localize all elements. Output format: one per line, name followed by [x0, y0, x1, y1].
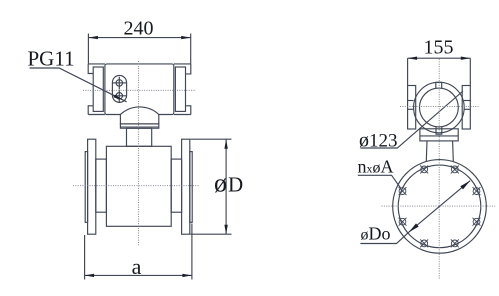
svg-text:155: 155	[424, 37, 454, 59]
svg-text:240: 240	[124, 18, 154, 40]
leader n x diameter A	[358, 175, 401, 188]
right hub	[171, 159, 181, 212]
dimension a extension right	[191, 224, 193, 280]
sensor body	[106, 146, 171, 226]
dimension Do arrow lower-left	[409, 223, 419, 232]
bolt hole 2	[473, 187, 481, 195]
dimension D extension top	[191, 138, 232, 140]
dimension Do diagonal line	[409, 181, 470, 232]
dimension 240 arrow left	[88, 36, 98, 39]
bolt hole 8	[420, 166, 428, 174]
right flange raised face	[190, 152, 192, 223]
centerline vertical side view	[438, 59, 440, 279]
svg-text:a: a	[132, 254, 142, 279]
left flange disc	[88, 139, 96, 234]
collar under dome	[120, 124, 158, 128]
flange inner circle	[398, 165, 481, 248]
converter housing body	[105, 64, 174, 115]
centerline horizontal flange circle	[382, 205, 496, 207]
bolt hole 7	[399, 187, 407, 195]
cable gland PG11 lower circle	[116, 93, 122, 99]
dimension 240 extension line right	[190, 34, 192, 64]
cable gland PG11 upper circle	[116, 80, 122, 86]
dimension D arrow top	[224, 139, 227, 149]
svg-text:PG11: PG11	[28, 47, 75, 71]
leader diameter Do	[360, 232, 409, 243]
dimension a arrow right	[182, 274, 192, 277]
svg-text:D: D	[228, 173, 243, 197]
side neck	[425, 141, 428, 161]
dimension 155 arrow right	[461, 57, 471, 60]
flange outer circle	[393, 160, 487, 254]
dimension a extension left	[84, 235, 86, 280]
leader diameter 123	[360, 91, 463, 148]
dimension 240 arrow right	[181, 36, 191, 39]
bottom boss	[436, 127, 442, 134]
bolt hole 1	[451, 166, 459, 174]
left hub	[96, 159, 107, 212]
right flange disc	[182, 139, 190, 234]
svg-text:nxøA: nxøA	[358, 157, 394, 177]
dimension 155 extension left	[407, 58, 409, 85]
centerline horizontal sensor body	[73, 185, 200, 187]
PG11 leader line	[30, 68, 127, 102]
right boss tick lines	[464, 100, 470, 102]
dimension D line	[225, 139, 227, 234]
left flange raised face	[85, 152, 87, 223]
bolt hole 3	[473, 218, 481, 226]
housing bottom edge over covers	[88, 114, 105, 116]
dimension D extension bottom	[191, 233, 232, 235]
dimension a arrow left	[85, 274, 95, 277]
clamp finger top-right	[186, 64, 191, 74]
clamp finger bottom-left	[88, 106, 93, 115]
dimension 240 extension line left	[87, 34, 89, 64]
centerline horizontal housing	[83, 89, 196, 91]
dimension a line	[85, 274, 192, 276]
cable gland boss stadium	[112, 75, 126, 102]
svg-text:øDo: øDo	[361, 224, 391, 244]
side bracket plate left	[408, 86, 416, 130]
housing right end cover	[175, 67, 185, 111]
centerline vertical front view	[138, 61, 140, 246]
left boss tick lines	[408, 100, 414, 102]
top boss	[436, 82, 442, 88]
support box	[420, 129, 458, 141]
converter housing outer circle	[414, 82, 465, 133]
clamp finger bottom-right	[186, 106, 191, 115]
dimension 155 line	[408, 57, 471, 59]
dimension 155 arrow left	[408, 57, 418, 60]
housing top edge over covers	[88, 63, 105, 65]
dimension Do arrow upper-right	[460, 181, 470, 190]
side bracket plate right	[462, 86, 470, 130]
clamp finger top-left	[88, 64, 93, 74]
neck	[127, 128, 152, 146]
converter housing inner circle	[420, 88, 459, 127]
svg-text:ø: ø	[214, 169, 227, 198]
dome between housing and neck	[120, 107, 158, 124]
bolt hole 5	[420, 239, 428, 247]
centerline horizontal converter circle	[400, 105, 479, 107]
bolt hole 4	[451, 239, 459, 247]
housing left end cover	[93, 67, 103, 111]
dimension 155 extension right	[469, 58, 471, 85]
bolt hole 6	[399, 218, 407, 226]
dimension 240 line	[88, 37, 190, 39]
dimension D arrow bottom	[224, 225, 227, 235]
PG11 leader arrowhead	[114, 95, 123, 100]
